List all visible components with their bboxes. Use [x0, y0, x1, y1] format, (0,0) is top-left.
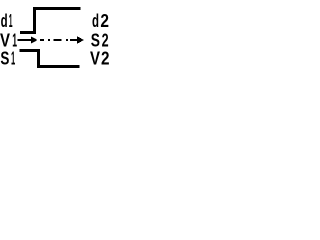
svg-text:d: d: [92, 11, 99, 31]
wire dashed signal path dash 3: [54, 39, 62, 41]
arrowhead after V1: [31, 36, 38, 43]
svg-text:2: 2: [100, 11, 109, 31]
svg-text:2: 2: [101, 49, 110, 69]
wire dashed signal path dash 1: [40, 39, 44, 41]
port label S1: [0, 49, 15, 69]
svg-text:d: d: [1, 11, 8, 31]
wire dashed signal path dash 2: [48, 39, 50, 41]
svg-text:1: 1: [9, 11, 13, 31]
wire dashed signal path dash 4: [66, 39, 68, 41]
port label S2: [91, 31, 109, 51]
wire S1-V2 step-down waveform: [20, 51, 80, 67]
svg-text:S: S: [0, 49, 9, 69]
port label V1: [0, 31, 17, 51]
port label d1: [1, 11, 13, 31]
background: [0, 0, 114, 75]
wire S2 arrow shaft: [70, 39, 79, 41]
svg-text:1: 1: [11, 49, 15, 69]
port label V2: [90, 49, 110, 69]
arrowhead before S2: [77, 36, 84, 43]
svg-text:V: V: [90, 49, 100, 69]
port label d2: [92, 11, 109, 31]
wire d1-d2 step-up waveform: [20, 9, 81, 33]
wire V1 arrow shaft: [17, 39, 33, 41]
